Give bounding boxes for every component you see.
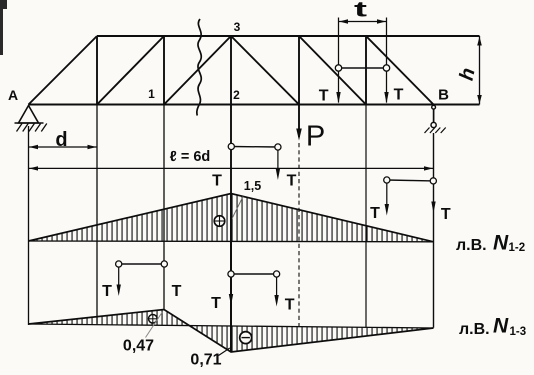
svg-text:л.В.: л.В.: [456, 237, 487, 254]
svg-text:d: d: [55, 129, 67, 151]
svg-text:T: T: [172, 283, 182, 300]
svg-text:1-3: 1-3: [510, 326, 527, 338]
svg-text:T: T: [212, 173, 222, 190]
svg-text:T: T: [102, 283, 112, 300]
svg-text:1: 1: [148, 87, 155, 101]
svg-text:t: t: [354, 0, 367, 22]
svg-text:л.В.: л.В.: [459, 321, 490, 338]
svg-text:T: T: [394, 87, 404, 104]
svg-text:T: T: [285, 297, 295, 314]
svg-text:T: T: [319, 88, 329, 105]
svg-text:N: N: [493, 232, 509, 255]
svg-text:3: 3: [234, 20, 241, 34]
svg-text:P: P: [306, 121, 325, 153]
svg-text:T: T: [370, 205, 380, 222]
svg-text:B: B: [438, 87, 449, 104]
svg-text:1-2: 1-2: [509, 242, 526, 254]
svg-text:T: T: [211, 295, 221, 312]
svg-text:ℓ = 6d: ℓ = 6d: [170, 149, 211, 165]
svg-text:T: T: [287, 173, 297, 190]
svg-text:T: T: [441, 206, 451, 223]
svg-text:0,47: 0,47: [123, 338, 154, 355]
svg-text:0,71: 0,71: [190, 352, 221, 369]
svg-text:A: A: [8, 87, 18, 103]
svg-text:N: N: [493, 315, 509, 338]
svg-text:1,5: 1,5: [244, 179, 261, 193]
svg-text:2: 2: [233, 88, 240, 102]
